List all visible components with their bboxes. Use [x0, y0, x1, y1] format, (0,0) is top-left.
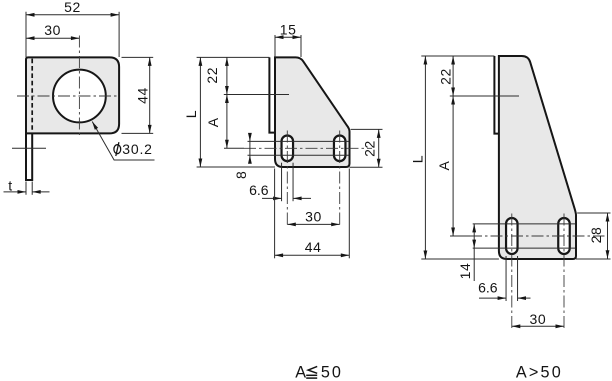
middle right corner extension [351, 128, 383, 130]
extension lines 6.6 [281, 163, 283, 202]
svg-text:A: A [205, 117, 221, 127]
slot right [334, 136, 346, 162]
dimension 6.6 (middle) [262, 197, 282, 199]
right slot straight-end lines [473, 223, 576, 225]
svg-text:A: A [295, 363, 306, 381]
flange strip below plate [26, 133, 32, 180]
svg-text:30.2: 30.2 [122, 141, 152, 157]
dimension A (right) [452, 96, 454, 236]
svg-text:30: 30 [530, 311, 547, 327]
dimension 30 (middle) [287, 223, 339, 225]
svg-text:14: 14 [457, 263, 473, 280]
right view strip (flange edge) [494, 56, 499, 134]
dimension 6.6 (right) [479, 297, 506, 299]
extension lines 15 [274, 35, 276, 57]
middle view strip (flange edge) [269, 57, 275, 132]
right extension lines 6.6 [505, 256, 507, 301]
slot horizontal centerline [224, 147, 244, 149]
right slot left [506, 218, 518, 254]
svg-text:30: 30 [44, 22, 61, 38]
dimension 22 (middle right) [378, 129, 380, 167]
horizontal centerline [17, 95, 117, 97]
svg-text:22: 22 [362, 140, 378, 157]
svg-text:50: 50 [321, 363, 343, 381]
extension lines for 52/30 dims [25, 12, 27, 57]
dimension 8 [249, 133, 251, 164]
svg-text:L: L [183, 110, 199, 118]
dimension 52 [26, 14, 119, 16]
dimension 28 [607, 213, 609, 259]
hidden bend line (dashed) [31, 59, 33, 133]
right slot horizontal centerline [450, 235, 470, 237]
dimension 30 (right) [512, 325, 564, 327]
dimension 15 [275, 36, 301, 38]
dimension 30 [26, 37, 79, 39]
dimension 22 (middle left) [226, 57, 228, 94]
dimension L (right) [424, 56, 426, 259]
svg-text:8: 8 [233, 171, 249, 179]
svg-text:30: 30 [305, 208, 322, 224]
svg-text:28: 28 [588, 227, 604, 244]
svg-text:t: t [8, 177, 13, 193]
svg-text:6.6: 6.6 [478, 280, 498, 296]
dimension 44 [149, 57, 151, 133]
svg-text:22: 22 [438, 68, 454, 85]
svg-text:6.6: 6.6 [249, 182, 269, 198]
middle bottom edge extensions [197, 166, 275, 168]
dimension 44 (middle) [275, 254, 350, 256]
right slot vertical centerlines [511, 214, 513, 330]
hole centerline mark [224, 94, 289, 96]
slot vertical centerlines [286, 131, 288, 228]
left view: front face of bracket plate [26, 57, 119, 133]
svg-text:52: 52 [64, 0, 81, 15]
svg-text:L: L [409, 155, 425, 163]
leader phi30.2 [92, 122, 154, 161]
hole circle phi 30.2 [53, 70, 106, 123]
svg-text:A>50: A>50 [516, 363, 563, 381]
dimension 14 [473, 224, 475, 281]
svg-text:44: 44 [134, 87, 150, 104]
svg-text:A: A [436, 160, 452, 170]
middle view body [275, 57, 350, 167]
svg-text:44: 44 [305, 239, 322, 255]
svg-text:15: 15 [280, 21, 297, 37]
right bottom edge extensions [421, 258, 499, 260]
dimension 44 extension lines [122, 56, 154, 58]
middle top edge extension (left) [197, 56, 270, 58]
right view body [499, 56, 576, 259]
right slot right [558, 218, 570, 254]
dimension t extension lines [25, 182, 27, 195]
dimension A (middle) [226, 95, 228, 149]
extension lines 44 [274, 169, 276, 259]
vertical centerline [78, 36, 80, 136]
right hole centerline mark [450, 95, 519, 97]
slot straight-end lines [248, 140, 349, 142]
dimension 22 (right view) [452, 56, 454, 96]
right 28 top extension [577, 212, 610, 214]
dimension L (middle) [199, 57, 201, 167]
svg-text:22: 22 [204, 67, 220, 84]
right top edge extension [421, 55, 494, 57]
slot left (6.6 slot) [282, 136, 294, 162]
break line across strip [12, 147, 46, 149]
dimension t [4, 191, 27, 193]
